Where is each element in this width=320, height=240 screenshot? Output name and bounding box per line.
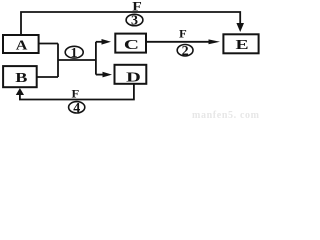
svg-text:D: D bbox=[126, 69, 141, 85]
svg-text:B: B bbox=[15, 70, 27, 86]
box D bbox=[115, 65, 147, 84]
circled 4 bbox=[69, 101, 85, 116]
svg-text:A: A bbox=[16, 38, 28, 53]
wire A top up across to above E and down bbox=[21, 12, 240, 35]
wire D down across to below B and up bbox=[20, 84, 134, 100]
arrowhead into B bottom bbox=[16, 88, 24, 95]
svg-text:1: 1 bbox=[71, 46, 78, 61]
box A bbox=[3, 35, 39, 53]
wire A right to junction bbox=[39, 43, 58, 45]
wire junction across to split bbox=[58, 59, 96, 61]
box C bbox=[115, 34, 146, 53]
svg-text:3: 3 bbox=[131, 14, 138, 29]
svg-text:C: C bbox=[124, 36, 139, 52]
box E bbox=[223, 34, 258, 53]
arrow into C bbox=[96, 41, 103, 43]
svg-text:F: F bbox=[132, 0, 142, 14]
arrowhead into E left bbox=[209, 39, 221, 44]
wire split vertical bbox=[95, 42, 97, 75]
wire C to E bbox=[146, 41, 210, 43]
box B bbox=[3, 66, 37, 87]
circled 2 bbox=[177, 44, 193, 59]
circled 3 bbox=[126, 14, 143, 29]
circled 1 bbox=[65, 46, 83, 61]
svg-text:4: 4 bbox=[73, 101, 80, 116]
svg-text:F: F bbox=[179, 27, 187, 40]
wire B right to junction bbox=[37, 76, 58, 78]
svg-text:manfen5. com: manfen5. com bbox=[192, 110, 260, 121]
wire junction vertical bbox=[57, 44, 59, 78]
svg-text:E: E bbox=[235, 36, 248, 52]
arrow into D bbox=[96, 74, 103, 76]
arrowhead into E top bbox=[236, 23, 244, 32]
svg-text:2: 2 bbox=[182, 44, 189, 59]
svg-text:F: F bbox=[72, 87, 80, 100]
